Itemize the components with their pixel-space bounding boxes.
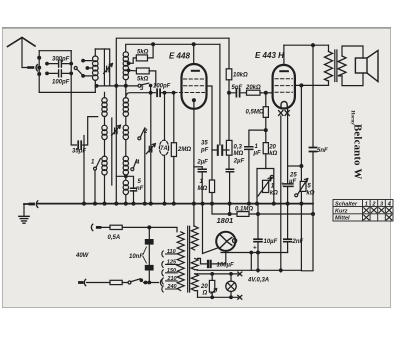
- wire B+ drop: [300, 85, 302, 203]
- wire 1801 filament feed: [203, 204, 218, 254]
- table X mittel 4: [386, 215, 392, 221]
- node cap junction: [70, 62, 73, 65]
- resistor 5k top: [136, 55, 147, 61]
- transformer secondary 4V rect: [191, 258, 198, 269]
- svg-text:210: 210: [166, 276, 176, 282]
- tube E448 grid dashes: [174, 79, 205, 93]
- svg-text:0,5A: 0,5A: [108, 235, 121, 241]
- svg-text:E 443 H: E 443 H: [255, 51, 284, 60]
- switch 7: [94, 167, 97, 170]
- svg-text:kΩ: kΩ: [306, 191, 314, 197]
- svg-text:125: 125: [167, 260, 177, 266]
- svg-text:7A: 7A: [160, 146, 168, 152]
- wire heater bus right: [197, 269, 301, 271]
- svg-text:MΩ: MΩ: [234, 151, 244, 157]
- table X kurz 1: [363, 207, 369, 213]
- resistor 20k bias: [263, 143, 268, 154]
- wire secondary leads: [195, 269, 198, 272]
- wire dial branch: [198, 273, 239, 275]
- svg-text:110: 110: [167, 249, 176, 255]
- capacitor 35pF: [78, 141, 81, 149]
- svg-text:20: 20: [268, 145, 276, 151]
- svg-text:kΩ: kΩ: [269, 151, 277, 157]
- svg-text:+: +: [253, 246, 257, 252]
- potentiometer 1k: [263, 180, 269, 192]
- capacitor 2uF cathode: [194, 166, 202, 168]
- wire B+ lower drop: [300, 204, 302, 271]
- coil LB4: [123, 156, 128, 161]
- coil LA3: [102, 125, 107, 130]
- svg-text:10kΩ: 10kΩ: [233, 73, 248, 79]
- wire coil leads: [94, 49, 96, 92]
- G8: power transformer: [80, 224, 199, 297]
- wire main box top: [116, 38, 229, 203]
- resistor 0.5M: [265, 93, 267, 143]
- wire top B+ rail: [284, 44, 329, 46]
- x-mark bottom: [238, 295, 242, 299]
- x-mark top: [238, 272, 242, 276]
- speaker: [355, 58, 367, 73]
- switch table: [333, 200, 393, 222]
- wire LA column: [104, 92, 106, 203]
- table X kurz 4: [386, 207, 392, 213]
- svg-text:Kurz: Kurz: [335, 208, 348, 214]
- capacitor 10uF: [257, 204, 259, 272]
- wire L2 bottom lead: [125, 80, 127, 86]
- G2: tuning coils: [94, 38, 230, 203]
- svg-text:Ω: Ω: [202, 291, 208, 297]
- tap arrow mains: [160, 280, 161, 286]
- svg-text:4V.0,3A: 4V.0,3A: [247, 278, 269, 284]
- wire top link: [39, 50, 71, 52]
- indicator 7A: [164, 93, 166, 204]
- switch 4: [131, 168, 134, 171]
- svg-text:E 448: E 448: [169, 51, 190, 60]
- wire inner top rail: [126, 44, 220, 52]
- antenna: [8, 38, 36, 47]
- svg-text:Schalter: Schalter: [335, 201, 358, 207]
- tube E448 cathode node: [192, 99, 195, 102]
- resistor 20k coupling: [247, 90, 261, 95]
- tube E443H cathode: [281, 101, 287, 108]
- svg-text:2: 2: [143, 129, 148, 135]
- lamp pilot: [230, 274, 232, 297]
- wire lamp bottom: [198, 296, 239, 298]
- resistor 2M: [173, 93, 175, 204]
- wire osc return: [83, 136, 85, 204]
- wire mains bottom: [87, 282, 159, 284]
- capacitor 10nF bottom: [145, 266, 153, 270]
- wire right column to 35pF: [71, 51, 76, 145]
- wire coil shield frame: [95, 49, 109, 86]
- svg-text:0,5MΩ: 0,5MΩ: [246, 109, 264, 115]
- wire heater drops: [250, 253, 252, 271]
- wire LA core bracket: [111, 118, 113, 185]
- tuning capacitor T3: [149, 146, 152, 152]
- wire switch 7 drop: [94, 170, 96, 204]
- svg-text:4: 4: [135, 160, 140, 166]
- node bus junctions: [83, 202, 86, 205]
- svg-text:Mittel: Mittel: [335, 216, 350, 222]
- tube E443H screen row: [275, 85, 293, 87]
- potentiometer 1k bracket: [257, 169, 274, 204]
- wire antenna down-lead: [22, 38, 28, 68]
- wire screen feed: [207, 86, 212, 149]
- svg-text:+: +: [281, 182, 285, 188]
- resistor 0.1M bias: [212, 204, 313, 214]
- G5: output/speaker: [325, 45, 379, 85]
- svg-text:35: 35: [201, 141, 208, 147]
- wire bottom link: [39, 91, 95, 93]
- svg-text:10µF: 10µF: [264, 239, 278, 245]
- capacitor 5nF osc: [116, 176, 133, 188]
- svg-text:µF: µF: [253, 151, 261, 157]
- mains plug top: [97, 226, 100, 229]
- wire AVC branch: [249, 130, 266, 146]
- capacitor 35pF grid: [218, 146, 222, 155]
- switch 2: [138, 137, 141, 140]
- resistor 10k screen: [228, 38, 230, 93]
- svg-text:150: 150: [167, 268, 176, 274]
- wire E448 top cap lead: [193, 44, 195, 64]
- svg-text:Belcanto W: Belcanto W: [352, 124, 364, 179]
- wire ground bus: [24, 203, 313, 205]
- capacitor 5nF coupling: [229, 92, 247, 94]
- svg-text:100pF: 100pF: [52, 80, 70, 86]
- switch S-ant: [74, 67, 77, 70]
- wire 1801 anode feed: [193, 204, 195, 227]
- coil LB2: [123, 98, 128, 103]
- resistor 0.3M: [228, 93, 230, 169]
- tube E448 envelope: [182, 64, 207, 109]
- svg-text:20: 20: [200, 284, 208, 290]
- svg-text:0,3: 0,3: [234, 145, 243, 151]
- svg-text:Horny: Horny: [349, 110, 355, 125]
- coil LB5: [123, 180, 128, 185]
- trimmer T1: [107, 66, 109, 71]
- node rail junctions: [152, 43, 155, 46]
- transformer primary winding: [177, 232, 184, 291]
- table X kurz 2: [371, 207, 377, 213]
- switch 3: [138, 84, 141, 87]
- svg-text:0,1MΩ: 0,1MΩ: [235, 207, 253, 213]
- svg-text:kΩ: kΩ: [270, 191, 278, 197]
- capacitor 300pF: [47, 63, 71, 65]
- wire 5nF drop: [301, 45, 313, 271]
- svg-text:100µF: 100µF: [217, 263, 234, 269]
- G4: E443H stage: [273, 44, 329, 272]
- wire mains top: [101, 227, 178, 231]
- trimmer T2: [115, 128, 117, 133]
- tube E443H grid dashes: [275, 79, 293, 93]
- capacitor 100uF: [201, 263, 226, 265]
- node L2 taps: [127, 62, 130, 65]
- capacitor 1uF: [245, 147, 253, 150]
- table X kurz 3: [379, 207, 385, 213]
- coil L-ant: [93, 56, 99, 62]
- svg-text:240: 240: [166, 284, 176, 290]
- transformer output primary: [325, 52, 333, 82]
- node input terminals: [38, 56, 41, 59]
- wire vertical drops to bus: [144, 129, 146, 204]
- wire coil core rail: [103, 49, 105, 86]
- capacitor 2uF AF: [226, 169, 233, 172]
- node filter tap: [148, 226, 151, 229]
- wire AVC bus: [95, 85, 138, 87]
- transformer core: [188, 226, 190, 292]
- potentiometer 5k tone: [300, 181, 306, 191]
- coil LB3: [123, 125, 128, 130]
- wire grid bus with 100pF: [126, 93, 174, 98]
- wire E443H anode lead: [283, 45, 285, 65]
- svg-text:2µF: 2µF: [233, 159, 245, 165]
- svg-text:5kΩ: 5kΩ: [137, 77, 149, 83]
- coil LA4: [102, 156, 107, 161]
- svg-text:300pF: 300pF: [52, 57, 70, 63]
- switch mains: [128, 281, 131, 284]
- wire anode B+: [295, 84, 329, 86]
- resistor 20ohm: [211, 274, 213, 297]
- wire E448 cathode drop: [193, 100, 195, 203]
- svg-text:nF: nF: [136, 186, 144, 192]
- wire tone branch: [288, 165, 302, 167]
- svg-text:20kΩ: 20kΩ: [245, 85, 261, 91]
- svg-text:MΩ: MΩ: [198, 186, 208, 192]
- coil LA2: [102, 98, 107, 103]
- ground plug: [30, 203, 34, 206]
- wire switch contacts: [83, 61, 92, 76]
- transformer secondary HT: [191, 226, 198, 250]
- mains plug bottom: [80, 281, 83, 284]
- svg-text:2µF: 2µF: [196, 159, 208, 165]
- svg-text:5kΩ: 5kΩ: [137, 50, 149, 56]
- capacitor 2nF: [284, 239, 292, 242]
- capacitor 100pF IF: [157, 89, 160, 96]
- fuse bottom: [110, 280, 122, 284]
- G1: antenna input: [8, 38, 110, 204]
- transformer secondary 4V heater: [191, 274, 198, 291]
- G7: rectifier/psu: [194, 204, 315, 300]
- capacitor 10nF top: [148, 227, 150, 239]
- svg-text:2nF: 2nF: [292, 239, 304, 245]
- svg-text:40W: 40W: [75, 253, 90, 259]
- wire LB column: [125, 86, 127, 204]
- ground symbol: [23, 204, 25, 216]
- wire tap links: [129, 58, 137, 71]
- svg-text:35pF: 35pF: [72, 149, 86, 155]
- antenna plug: [29, 66, 34, 69]
- svg-text:5nF: 5nF: [232, 85, 243, 91]
- fuse 0.5A: [110, 225, 122, 229]
- leader 10nF: [143, 247, 146, 263]
- capacitor 100pF: [47, 72, 71, 74]
- tap arrows primary: [162, 251, 177, 257]
- wire 1801 cathode down: [225, 251, 227, 264]
- G3: E448 stage: [159, 38, 273, 203]
- wire 35pF feed: [219, 44, 221, 145]
- tube 1801 electrodes: [220, 235, 232, 248]
- wire cathode drop: [287, 109, 289, 253]
- capacitor 25uF: [284, 184, 293, 187]
- svg-text:2MΩ: 2MΩ: [177, 147, 191, 153]
- tube E443H heater marks: [279, 111, 290, 116]
- svg-text:5nF: 5nF: [317, 148, 328, 154]
- wire input column: [38, 51, 40, 93]
- wire heater drop: [280, 116, 282, 272]
- G9: labels: [52, 50, 364, 297]
- wire 100uF to winding: [198, 258, 201, 264]
- table X mittel 1: [363, 215, 369, 221]
- node AVC takeoff: [264, 129, 267, 132]
- tube E443H top cap: [280, 70, 288, 72]
- svg-text:µF: µF: [288, 179, 296, 185]
- tube E443H envelope: [273, 65, 295, 109]
- transformer output core: [335, 50, 337, 82]
- svg-text:100pF: 100pF: [153, 84, 171, 90]
- svg-text:10nF: 10nF: [129, 254, 143, 260]
- svg-text:25: 25: [289, 173, 297, 179]
- wire secondary to speaker: [342, 46, 363, 86]
- resistor 5k bottom: [136, 68, 149, 74]
- resistor 1M grid leak: [211, 150, 213, 204]
- svg-text:1: 1: [365, 201, 368, 207]
- tube E448 top cap: [192, 70, 199, 72]
- transformer output secondary: [338, 56, 346, 76]
- G6: ground bus: [19, 201, 313, 223]
- capacitor 5nF anode: [310, 148, 317, 152]
- svg-text:pF: pF: [200, 148, 209, 154]
- tube 1801 envelope: [216, 232, 235, 251]
- coil L2 top: [123, 52, 128, 57]
- svg-text:1801: 1801: [217, 216, 234, 225]
- wire HT rail: [221, 252, 288, 254]
